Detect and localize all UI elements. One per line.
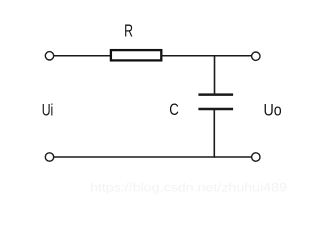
wire capacitor top stub [214,56,216,94]
terminal output top-right [252,52,260,60]
svg-text:R: R [124,20,133,40]
wire capacitor bottom stub [213,110,215,158]
wire bottom segment [54,156,252,158]
svg-text:C: C [169,100,179,119]
svg-text:Ui: Ui [42,102,54,120]
terminal output bottom-right [252,153,260,161]
wire top-right segment [161,55,252,57]
svg-text:Uo: Uo [264,101,282,119]
capacitor C top plate [198,93,233,96]
svg-text:https://blog.csdn.net/zhuhui48: https://blog.csdn.net/zhuhui489 [90,180,287,194]
resistor R [111,50,161,60]
capacitor C bottom plate [198,108,233,111]
terminal input top-left [45,52,53,60]
terminal input bottom-left [45,153,53,161]
wire top-left segment [54,55,111,57]
